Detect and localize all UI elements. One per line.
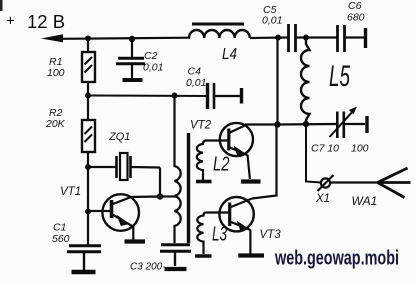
svg-text:20K: 20K	[45, 118, 66, 130]
svg-text:VT2: VT2	[190, 120, 212, 132]
svg-text:C4: C4	[188, 66, 202, 78]
ground L2	[196, 180, 212, 184]
node transformer drop	[172, 93, 178, 99]
inductor transformer primary winding	[175, 166, 181, 243]
inductor L4	[189, 24, 250, 63]
node R1 top	[85, 36, 91, 42]
transistor VT1	[60, 186, 139, 240]
resistor R2	[45, 96, 95, 168]
terminal bar C7 output	[365, 116, 368, 133]
capacitor C3	[130, 245, 191, 273]
svg-text:12 В: 12 В	[27, 11, 65, 32]
node L5 bottom	[303, 121, 309, 127]
svg-text:0,01: 0,01	[262, 15, 282, 27]
wire L5 bottom to X1	[306, 124, 321, 183]
wire X1 to antenna	[330, 181, 378, 183]
capacitor C6	[338, 0, 365, 52]
svg-text:C3 200·: C3 200·	[130, 262, 166, 273]
svg-text:+: +	[6, 13, 15, 30]
svg-text:100: 100	[47, 67, 65, 79]
scan corner mark	[0, 0, 3, 11]
svg-text:X1: X1	[315, 193, 330, 205]
svg-text:C7 10: C7 10	[311, 143, 339, 155]
svg-text:ZQ1: ZQ1	[108, 131, 130, 143]
node VT2 collector junction	[274, 121, 280, 127]
svg-text:0,01: 0,01	[186, 77, 206, 89]
svg-text:100: 100	[351, 143, 369, 155]
transistor VT3	[219, 197, 281, 254]
label +12V supply	[6, 11, 65, 32]
svg-text:web.geowap.mobi: web.geowap.mobi	[274, 248, 399, 270]
antenna WA1	[352, 168, 411, 208]
connector X1	[315, 175, 334, 205]
ground VT1	[125, 239, 146, 243]
ground C1	[72, 270, 96, 275]
terminal bar C4	[240, 88, 243, 104]
transformer core	[187, 133, 190, 243]
ground VT2	[241, 179, 261, 183]
crystal ZQ1	[88, 131, 160, 180]
node main vertical top	[275, 35, 281, 41]
svg-text:C2: C2	[144, 50, 158, 62]
wire rail drop to primary	[173, 96, 175, 168]
node second rail left	[85, 93, 91, 99]
node L5 top	[303, 35, 309, 41]
terminal bar C6 output	[364, 28, 367, 48]
node C2 top	[129, 36, 135, 42]
wire top rail segment A	[60, 38, 190, 39]
wire main vertical (collectors to tank)	[276, 38, 278, 125]
ground C2	[123, 78, 143, 82]
svg-text:WA1: WA1	[352, 194, 378, 208]
capacitor C4	[186, 66, 240, 110]
capacitor C7 variable	[311, 107, 369, 155]
wire R2 bottom to VT1 base	[87, 167, 89, 212]
wire second rail	[88, 95, 207, 98]
svg-text:680: 680	[347, 12, 365, 24]
capacitor C2	[116, 39, 163, 78]
ground VT3	[238, 253, 264, 257]
svg-text:0,01: 0,01	[143, 62, 163, 74]
ground L3	[195, 254, 212, 258]
capacitor C1	[52, 212, 101, 271]
svg-text:VT1: VT1	[60, 186, 81, 198]
capacitor C5	[262, 4, 337, 52]
wire ZQ1 drop	[159, 168, 161, 197]
svg-text:560: 560	[52, 233, 70, 245]
wire tap to primary coil	[160, 195, 175, 197]
inductor L3	[197, 213, 229, 255]
wire VT1 collector	[128, 195, 160, 198]
power arrow (supply terminal)	[41, 34, 63, 42]
resistor R1	[47, 39, 95, 96]
node ZQ1 junction	[85, 164, 91, 170]
inductor L2	[197, 141, 230, 181]
svg-text:L2: L2	[213, 154, 230, 176]
ground C3	[165, 267, 187, 271]
wire top rail segment B	[250, 36, 288, 39]
transistor VT2	[190, 120, 253, 180]
svg-text:VT3: VT3	[260, 229, 282, 241]
wire tank bottom	[278, 123, 338, 126]
node VT1 base junction	[85, 209, 91, 215]
wire VT2 collector	[245, 123, 278, 125]
svg-text:L5: L5	[329, 60, 350, 93]
inductor L5	[301, 38, 350, 125]
svg-text:C1: C1	[53, 222, 66, 234]
svg-text:C6: C6	[348, 0, 362, 12]
svg-text:L4: L4	[222, 46, 237, 63]
node collector/tap junction	[157, 193, 163, 199]
wire VT3 collector	[252, 125, 277, 199]
